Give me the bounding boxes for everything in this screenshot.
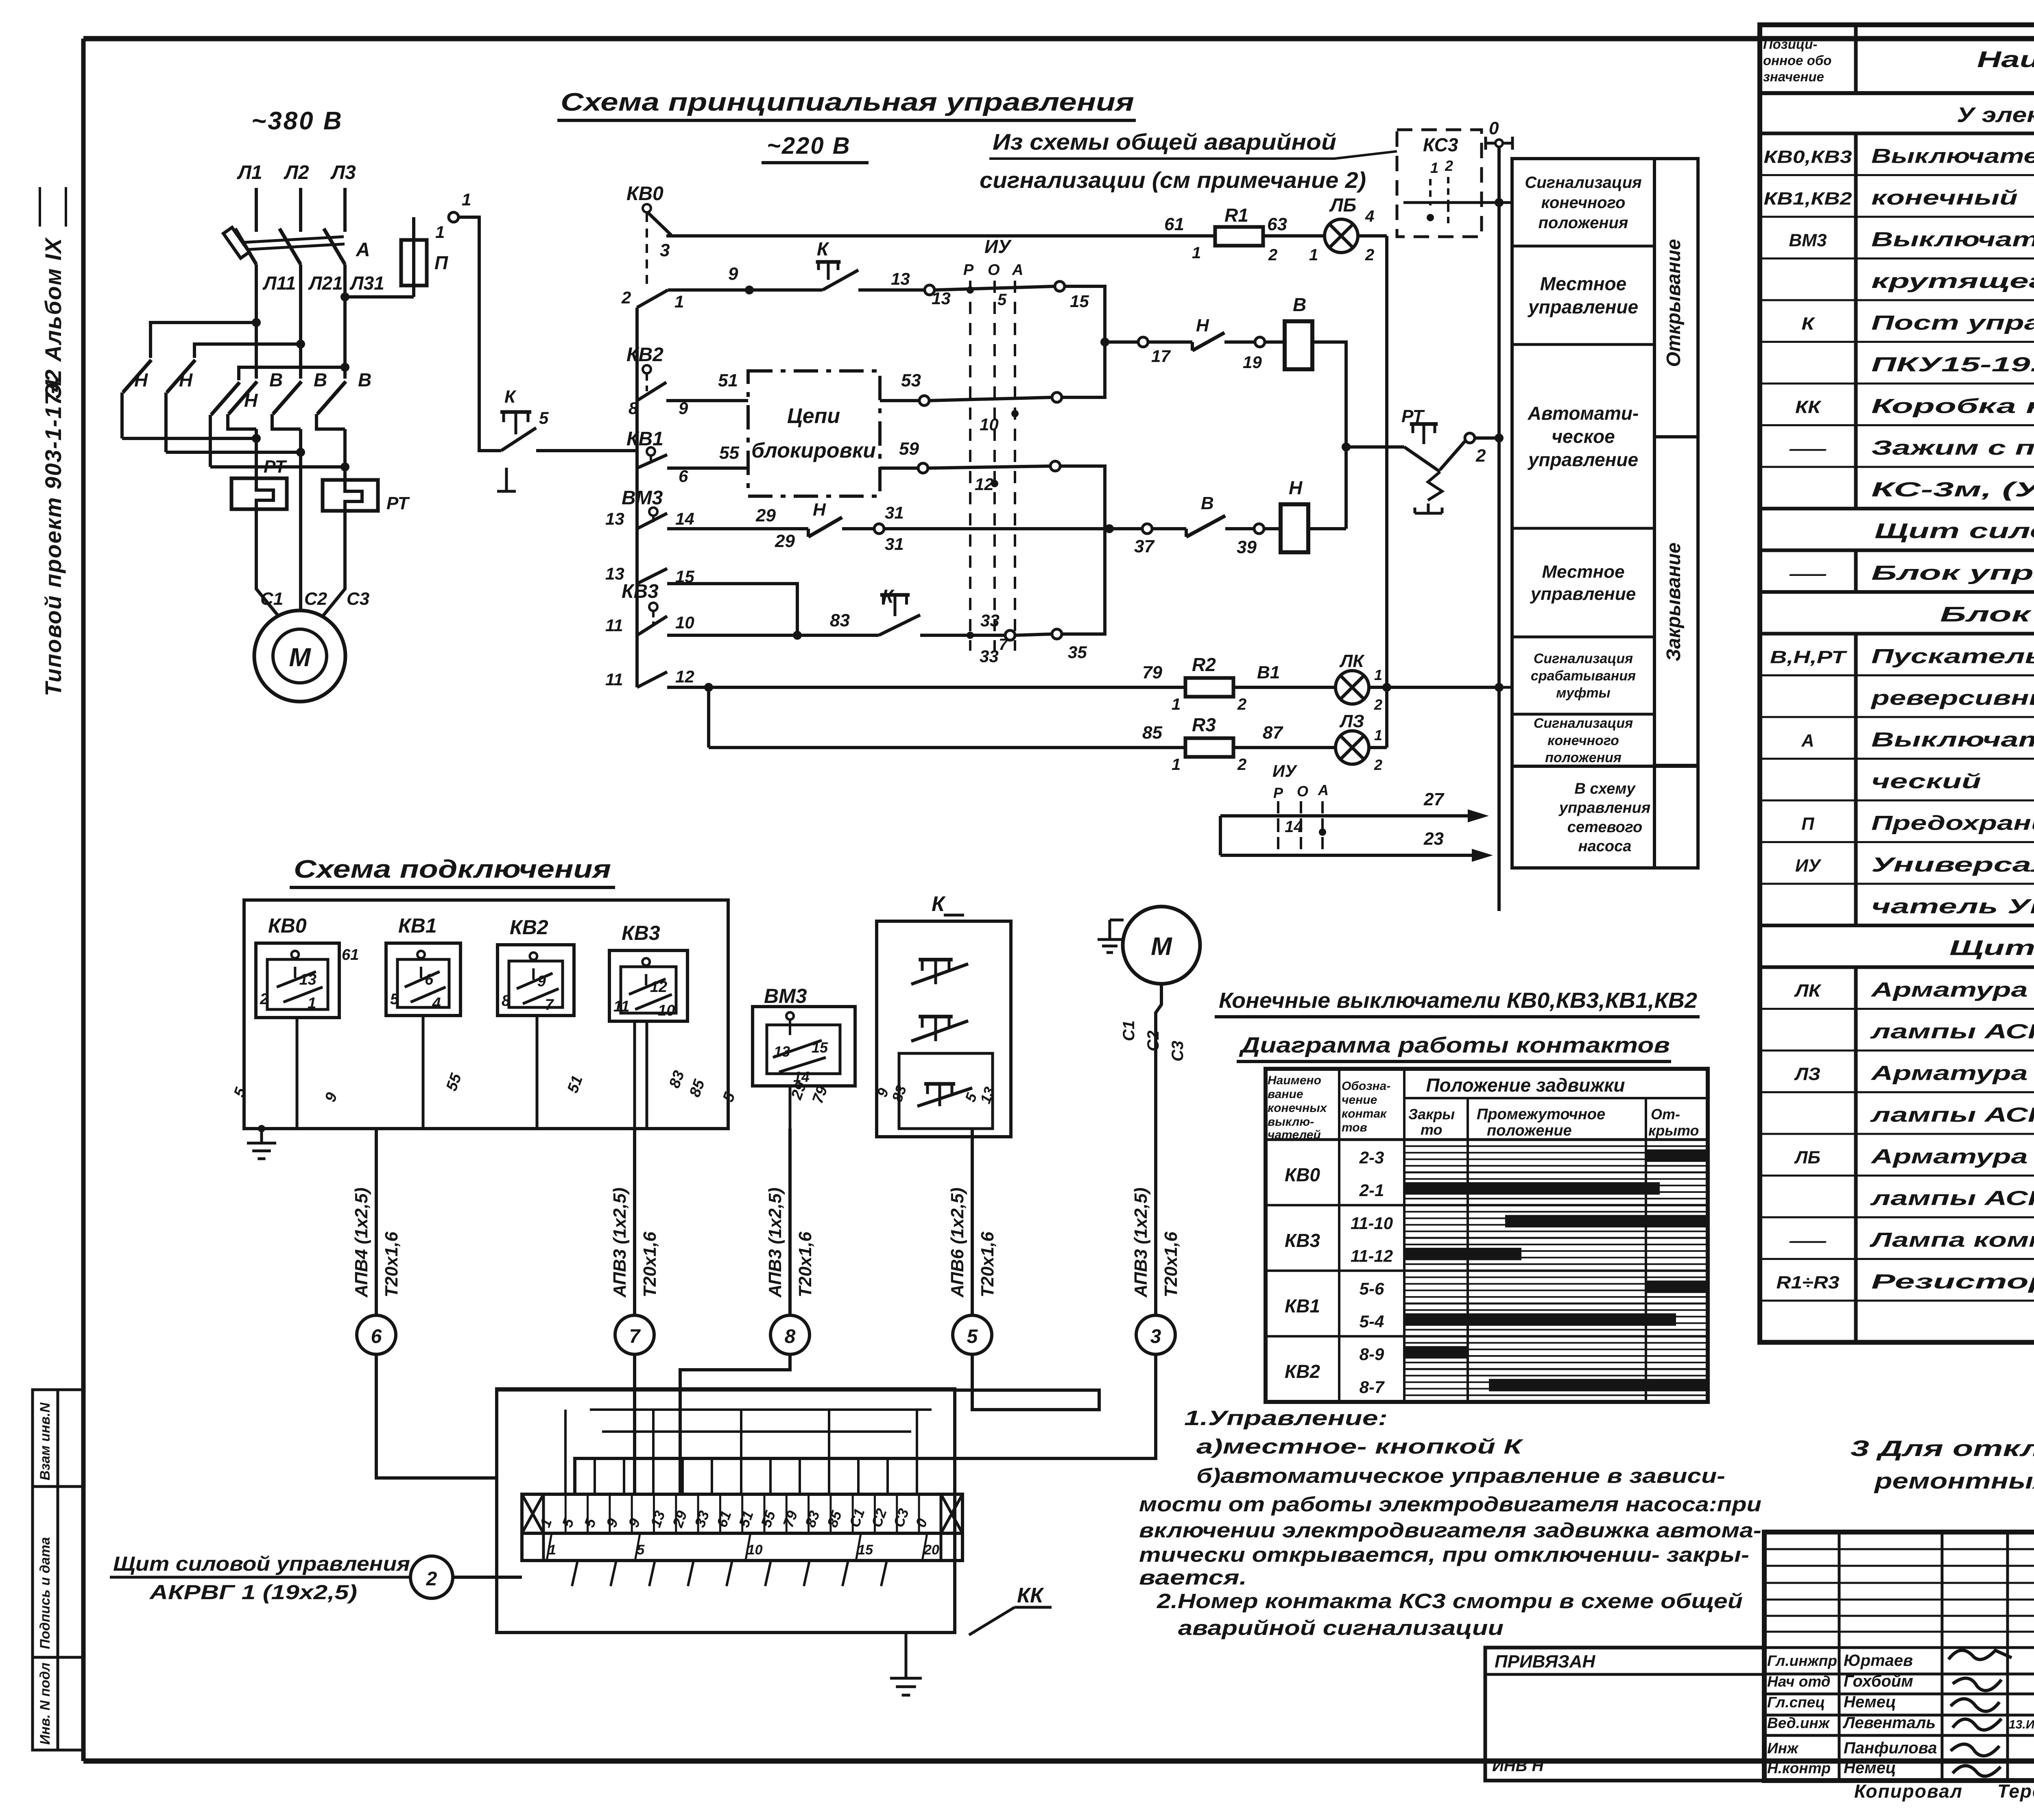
svg-text:R2: R2	[1192, 654, 1216, 675]
svg-text:31: 31	[885, 534, 904, 554]
svg-text:Копировал: Копировал	[1854, 1781, 1963, 1802]
limit switch box КВ3	[609, 922, 687, 1021]
svg-text:13: 13	[605, 509, 624, 528]
svg-text:Н: Н	[179, 369, 193, 390]
svg-text:13: 13	[605, 564, 624, 583]
KK label	[969, 1584, 1052, 1635]
terminal box KK enclosure	[497, 1389, 955, 1633]
svg-text:Блок управления: Блок управления	[1871, 562, 2034, 584]
title: schema principialnaya upravleniya	[557, 88, 1136, 120]
svg-text:3: 3	[1150, 1326, 1161, 1347]
svg-text:27: 27	[1423, 789, 1445, 809]
cable АПВ3 (1х2,5) Т20х1,6 circuit 8	[765, 1129, 815, 1354]
svg-text:5: 5	[967, 1326, 978, 1347]
contactor H return wires	[122, 437, 256, 440]
title ~220 V	[762, 133, 869, 163]
contact VM3 13-15	[605, 564, 797, 635]
svg-text:35: 35	[1068, 643, 1087, 662]
svg-text:управление: управление	[1530, 584, 1636, 604]
svg-text:лампы АСКМ: лампы АСКМ	[1870, 1020, 2034, 1043]
selector IU lower group	[1272, 761, 1329, 849]
svg-text:14: 14	[675, 509, 694, 528]
wire node1 to control feed	[458, 217, 501, 451]
limit switch KV3 contact 11-12	[605, 667, 1185, 692]
svg-text:11: 11	[605, 670, 623, 689]
svg-text:Арматура коммутаторной: Арматура коммутаторной	[1870, 1145, 2034, 1168]
svg-text:2.Номер контакта КС3 смотри в: 2.Номер контакта КС3 смотри в схеме обще…	[1157, 1589, 1743, 1613]
wire	[727, 1561, 732, 1586]
svg-text:насоса: насоса	[1578, 838, 1632, 855]
svg-text:П: П	[434, 252, 448, 273]
KS3 contact output wire	[1403, 201, 1499, 204]
svg-text:1: 1	[1374, 727, 1382, 743]
svg-text:Выключатель автомати-: Выключатель автомати-	[1871, 728, 2034, 751]
wire	[681, 1458, 684, 1494]
svg-text:Местное: Местное	[1540, 273, 1626, 294]
svg-text:Л11: Л11	[262, 272, 296, 294]
title: konechnye vyklyuchateli	[1215, 988, 1700, 1017]
svg-text:КВ0: КВ0	[626, 183, 663, 205]
wire	[789, 1086, 792, 1129]
svg-text:2: 2	[1365, 246, 1374, 264]
svg-text:Типовой проект 903-1-174: Типовой проект 903-1-174	[40, 378, 66, 696]
bus rung 1 (lamp LB circuit)	[666, 234, 1215, 238]
svg-text:Наимено: Наимено	[1268, 1074, 1321, 1087]
svg-text:КВ3: КВ3	[622, 922, 660, 944]
push button K contact 13	[816, 238, 951, 308]
rung 2 : seal-in via K button	[668, 288, 823, 292]
svg-text:Л1: Л1	[237, 162, 262, 183]
svg-text:Инж: Инж	[1767, 1740, 1799, 1757]
lamp LB (milky)	[1325, 194, 1358, 253]
svg-text:мости от работы электродвигате: мости от работы электродвигателя насоса:…	[1139, 1493, 1761, 1516]
contactor H contacts	[122, 360, 258, 467]
svg-text:Н: Н	[134, 369, 148, 390]
outgoing line 27 to network pump schema	[1220, 789, 1489, 822]
svg-text:4: 4	[432, 995, 441, 1012]
svg-text:Щит управления: Щит управления	[1949, 936, 2034, 960]
svg-text:15: 15	[1070, 292, 1089, 311]
svg-text:R3: R3	[1192, 714, 1216, 735]
wire 59 branch	[880, 439, 1105, 529]
signal descriptor column	[1512, 159, 1698, 868]
svg-text:Положение задвижки: Положение задвижки	[1426, 1075, 1625, 1096]
svg-text:АПВ4 (1х2,5): АПВ4 (1х2,5)	[351, 1188, 371, 1298]
svg-text:В,Н,РТ: В,Н,РТ	[1770, 647, 1847, 667]
svg-text:К: К	[504, 387, 517, 407]
svg-text:ВМ3: ВМ3	[1789, 231, 1827, 251]
svg-text:10: 10	[980, 415, 999, 434]
wire	[857, 1458, 860, 1494]
svg-text:Открывание: Открывание	[1663, 239, 1685, 367]
lamp LZ (green)	[1336, 711, 1387, 773]
svg-text:2: 2	[426, 1568, 437, 1590]
svg-text:Т20х1,6: Т20х1,6	[978, 1231, 997, 1297]
svg-text:14: 14	[1285, 818, 1303, 836]
svg-text:1: 1	[1430, 159, 1438, 176]
limit switch KV3 contact 11-10	[605, 581, 879, 640]
contact 2 to neutral rail	[1440, 433, 1504, 470]
wire	[296, 1018, 299, 1129]
svg-text:крыто: крыто	[1648, 1122, 1699, 1139]
title block	[1764, 1532, 2034, 1781]
lamp return rail vertical	[1385, 236, 1388, 748]
svg-text:Арматура коммутаторной: Арматура коммутаторной	[1870, 1062, 2034, 1085]
wire	[769, 1458, 772, 1494]
svg-text:~380 В: ~380 В	[251, 107, 343, 135]
switch box VM3	[753, 985, 855, 1086]
svg-text:Гохбойм: Гохбойм	[1844, 1672, 1913, 1690]
wire	[916, 1410, 918, 1494]
svg-text:Л3: Л3	[330, 162, 356, 183]
svg-text:муфты: муфты	[1556, 685, 1610, 701]
svg-text:чатель УП5314-С554: чатель УП5314-С554	[1871, 895, 2034, 918]
svg-text:В схему: В схему	[1574, 780, 1636, 798]
cable 7 wire to strip	[633, 1354, 636, 1494]
ground of KK box	[890, 1633, 922, 1695]
svg-text:Цепи: Цепи	[787, 404, 840, 428]
svg-text:КВ1: КВ1	[1285, 1295, 1320, 1317]
power cable from control panel	[110, 1552, 522, 1604]
svg-text:5: 5	[997, 291, 1007, 309]
svg-text:Т20х1,6: Т20х1,6	[795, 1231, 815, 1297]
svg-text:1: 1	[462, 190, 471, 209]
svg-text:5-4: 5-4	[1360, 1312, 1384, 1331]
svg-text:АПВ3 (1х2,5): АПВ3 (1х2,5)	[765, 1188, 785, 1298]
svg-text:ПКУ15-19. 131-40У3: ПКУ15-19. 131-40У3	[1871, 353, 2034, 376]
thermal relay RT contact	[1401, 406, 1473, 513]
cable 8 wire to strip	[680, 1354, 790, 1494]
svg-text:Т20х1,6: Т20х1,6	[1161, 1231, 1181, 1297]
wire from alarm schema into KS3	[1334, 151, 1397, 159]
svg-text:ВМ3: ВМ3	[622, 487, 663, 509]
wire phase L2	[299, 188, 302, 232]
internal routing wires	[497, 1389, 955, 1392]
wire 53	[880, 342, 1105, 405]
svg-text:79: 79	[1142, 663, 1162, 682]
rung R3 lamp LZ	[709, 714, 1336, 774]
svg-text:Вед.инж: Вед.инж	[1767, 1715, 1830, 1731]
wire LK rung into column	[1499, 686, 1512, 689]
cable 3 wire to strip	[575, 1354, 1156, 1494]
svg-text:К: К	[1802, 314, 1816, 334]
svg-text:9: 9	[537, 973, 546, 990]
svg-text:Л31: Л31	[349, 272, 384, 294]
svg-text:83: 83	[830, 610, 850, 630]
terminal strip	[522, 1494, 962, 1561]
svg-text:6: 6	[371, 1326, 382, 1347]
wire	[652, 1410, 655, 1494]
svg-text:15: 15	[812, 1039, 828, 1056]
svg-text:61: 61	[1164, 214, 1184, 234]
svg-text:ЛБ: ЛБ	[1794, 1148, 1820, 1168]
svg-text:С1: С1	[1120, 1020, 1138, 1041]
svg-text:Терентьева: Терентьева	[1997, 1781, 2034, 1802]
svg-text:Закры: Закры	[1408, 1106, 1455, 1123]
svg-text:управления: управления	[1558, 800, 1650, 817]
node 1	[435, 190, 471, 242]
push button K (repair cutoff)	[497, 387, 637, 491]
svg-text:—: —	[1789, 564, 1827, 584]
svg-text:Из схемы общей аварийной: Из схемы общей аварийной	[993, 129, 1336, 155]
svg-text:Щит силовой управления: Щит силовой управления	[1875, 519, 2034, 543]
connection diagram enclosure (drive)	[244, 900, 728, 1129]
left margin stamp boxes	[33, 1390, 83, 1750]
svg-text:17: 17	[1151, 347, 1171, 366]
contact work table	[1266, 1069, 1708, 1402]
svg-text:ремонтных работ пользоваться: ремонтных работ пользоваться кнопкой К	[1873, 1468, 2034, 1493]
svg-text:12: 12	[650, 979, 667, 996]
svg-text:2: 2	[621, 288, 631, 307]
svg-text:П: П	[1802, 814, 1815, 834]
svg-text:31: 31	[885, 503, 904, 522]
cable АПВ3 (1х2,5) Т20х1,6 circuit 7	[610, 1129, 660, 1354]
svg-text:8: 8	[502, 992, 511, 1009]
wire	[422, 1016, 425, 1129]
KS3 dashed box	[1397, 130, 1482, 237]
svg-text:63: 63	[1267, 214, 1287, 234]
selector IU dashed lines P O A	[963, 236, 1023, 654]
svg-text:Н.контр: Н.контр	[1767, 1760, 1831, 1776]
svg-text:Гл.инжпр: Гл.инжпр	[1767, 1652, 1837, 1669]
svg-text:2: 2	[1374, 696, 1382, 713]
svg-text:А: А	[356, 239, 370, 261]
wire	[804, 1561, 810, 1586]
svg-text:R1: R1	[1224, 205, 1248, 226]
wire	[842, 1561, 848, 1586]
svg-text:ИУ: ИУ	[1795, 856, 1822, 876]
svg-text:Немец: Немец	[1844, 1693, 1896, 1711]
wire	[594, 1458, 596, 1494]
svg-text:13: 13	[774, 1043, 790, 1060]
svg-text:РТ: РТ	[264, 457, 287, 477]
svg-text:КВ0,КВ3: КВ0,КВ3	[1764, 147, 1852, 167]
wire	[623, 1458, 625, 1494]
thermal element RT phase1	[231, 457, 287, 509]
svg-text:Р: Р	[963, 262, 974, 279]
svg-text:ИУ: ИУ	[984, 236, 1012, 257]
svg-text:11: 11	[605, 616, 623, 635]
svg-text:реверсивный: реверсивный	[1870, 687, 2034, 709]
motor M (connection diagram)	[1098, 907, 1200, 1061]
branch 51-53 from KV2	[626, 307, 748, 472]
svg-text:Универсальный переклю-: Универсальный переклю-	[1871, 853, 2034, 876]
svg-text:1: 1	[308, 995, 316, 1012]
svg-text:Левенталь: Левенталь	[1842, 1714, 1936, 1732]
wire	[688, 1561, 694, 1586]
wire node to RT contact	[1346, 445, 1404, 449]
svg-text:Р: Р	[1273, 785, 1283, 801]
svg-text:РТ: РТ	[386, 493, 410, 513]
svg-text:8-9: 8-9	[1360, 1345, 1384, 1364]
svg-text:тов: тов	[1342, 1121, 1367, 1134]
terminal 0	[1486, 118, 1512, 150]
coil N (close contactor)	[1281, 477, 1308, 552]
branch to rung R3	[707, 687, 710, 748]
svg-text:КС-3м, (У11): КС-3м, (У11)	[1871, 478, 2034, 501]
svg-text:2: 2	[1445, 157, 1453, 174]
svg-text:Схема подключения: Схема подключения	[294, 855, 611, 883]
svg-text:Резистор ПЭ-25: Резистор ПЭ-25	[1871, 1270, 2034, 1293]
motor M power	[254, 610, 345, 702]
svg-text:2-3: 2-3	[1359, 1148, 1384, 1167]
svg-text:ческий: ческий	[1871, 770, 1981, 793]
svg-text:5: 5	[390, 991, 399, 1008]
svg-text:К: К	[817, 238, 829, 259]
svg-text:Сигнализация: Сигнализация	[1534, 716, 1633, 731]
svg-text:ЛК: ЛК	[1339, 651, 1365, 671]
svg-text:Л21: Л21	[308, 272, 343, 294]
svg-text:сигнализации (см примечание 2): сигнализации (см примечание 2)	[980, 167, 1366, 193]
svg-text:значение: значение	[1763, 69, 1824, 84]
wire	[765, 1561, 771, 1586]
lamp LK (red)	[1336, 651, 1504, 713]
svg-text:онное обо: онное обо	[1763, 53, 1831, 68]
svg-text:0: 0	[1489, 118, 1499, 138]
svg-text:КВ3: КВ3	[1285, 1230, 1320, 1251]
svg-text:С3: С3	[1169, 1041, 1187, 1061]
svg-text:Местное: Местное	[1542, 562, 1624, 582]
svg-text:тически открывается, при отклю: тически открывается, при отключении- зак…	[1139, 1543, 1749, 1566]
svg-text:срабатывания: срабатывания	[1531, 668, 1636, 684]
contactor V contacts	[228, 369, 371, 586]
svg-text:12: 12	[975, 475, 994, 494]
svg-text:23: 23	[1423, 829, 1444, 849]
svg-text:2: 2	[1475, 446, 1486, 466]
svg-text:11-10: 11-10	[1351, 1214, 1393, 1233]
svg-text:15: 15	[858, 1542, 873, 1558]
svg-text:лампы АСКМ: лампы АСКМ	[1870, 1187, 2034, 1210]
svg-text:положение: положение	[1487, 1122, 1572, 1139]
cable 5 wire to box	[955, 1354, 1099, 1410]
wire coil N return	[1308, 527, 1346, 530]
svg-text:вание: вание	[1268, 1088, 1303, 1101]
svg-text:33: 33	[980, 647, 999, 666]
circuit breaker A	[223, 227, 370, 264]
svg-text:конечных: конечных	[1268, 1101, 1327, 1115]
wire	[611, 1561, 616, 1586]
wire	[536, 1016, 539, 1129]
svg-text:Блок управления: Блок управления	[1940, 603, 2034, 626]
svg-text:КВ1: КВ1	[398, 914, 437, 937]
limit switch KV0 contact 2-3	[626, 183, 671, 285]
svg-text:В: В	[314, 369, 327, 390]
wire phase L1	[255, 188, 258, 232]
cable 6 wire to box	[376, 1354, 497, 1478]
svg-text:1: 1	[1172, 756, 1181, 774]
svg-text:М: М	[289, 643, 311, 672]
svg-text:~220 В: ~220 В	[767, 133, 851, 159]
svg-text:Нач отд: Нач отд	[1767, 1673, 1831, 1690]
wire	[572, 1561, 578, 1586]
svg-text:29: 29	[755, 506, 776, 525]
svg-text:ЛЗ: ЛЗ	[1794, 1064, 1820, 1084]
footer text	[1854, 1779, 2034, 1807]
svg-text:ческое: ческое	[1552, 426, 1615, 447]
svg-text:39: 39	[1237, 537, 1257, 557]
svg-text:8: 8	[785, 1326, 796, 1347]
svg-text:1: 1	[1172, 695, 1181, 713]
svg-text:Схема принципиальная управле: Схема принципиальная управления	[561, 88, 1134, 116]
coil V (open contactor)	[1285, 294, 1312, 369]
svg-text:управление: управление	[1528, 296, 1638, 318]
svg-text:М: М	[1151, 933, 1172, 961]
svg-text:4: 4	[1365, 207, 1374, 225]
svg-text:Диаграмма работы контактов: Диаграмма работы контактов	[1239, 1033, 1670, 1057]
svg-text:—: —	[1789, 439, 1827, 459]
svg-text:В1: В1	[1257, 663, 1280, 682]
svg-text:конечный: конечный	[1871, 186, 2018, 209]
svg-text:5-6: 5-6	[1360, 1279, 1384, 1298]
neutral rail 0	[1497, 146, 1501, 911]
svg-text:АПВ3 (1х2,5): АПВ3 (1х2,5)	[610, 1188, 630, 1298]
svg-text:Наименование: Наименование	[1977, 46, 2034, 72]
svg-text:61: 61	[342, 946, 359, 963]
svg-text:К: К	[932, 892, 946, 916]
svg-text:10: 10	[658, 1002, 675, 1019]
svg-text:3: 3	[660, 240, 670, 260]
parts list table	[1760, 25, 2034, 1343]
svg-text:2: 2	[1268, 246, 1277, 264]
svg-text:2: 2	[1237, 695, 1246, 713]
svg-text:КК: КК	[1017, 1584, 1044, 1607]
limit switch box КВ1	[386, 914, 460, 1016]
svg-text:1.Управление:: 1.Управление:	[1184, 1406, 1388, 1430]
note: from common alarm schema	[980, 129, 1366, 193]
rung R2 lamp LK	[1142, 654, 1336, 713]
contactor H wires (reverse loop)	[151, 323, 256, 358]
svg-text:Выключатель: Выключатель	[1871, 145, 2034, 168]
svg-text:С2: С2	[304, 589, 327, 609]
cable АПВ3 (1х2,5) Т20х1,6 circuit 3	[1131, 1025, 1181, 1354]
svg-text:КВ2: КВ2	[510, 916, 548, 939]
svg-text:85: 85	[1142, 723, 1162, 743]
svg-text:КВ2: КВ2	[626, 344, 663, 366]
svg-text:11: 11	[613, 998, 629, 1015]
svg-text:а)местное- кнопкой К: а)местное- кнопкой К	[1196, 1435, 1524, 1458]
svg-text:КВ2: КВ2	[1285, 1361, 1320, 1382]
svg-text:2: 2	[260, 991, 268, 1008]
svg-text:КВ1,КВ2: КВ1,КВ2	[1764, 189, 1853, 209]
svg-text:АПВ3 (1х2,5): АПВ3 (1х2,5)	[1131, 1188, 1151, 1298]
svg-text:Т20х1,6: Т20х1,6	[640, 1231, 660, 1297]
svg-text:К: К	[882, 586, 895, 607]
svg-text:ПРИВЯЗАН: ПРИВЯЗАН	[1495, 1652, 1595, 1672]
wire L31 to fuse	[345, 295, 414, 299]
fuse P	[401, 217, 448, 297]
svg-text:включении электродвигателя зад: включении электродвигателя задвижка авто…	[1139, 1519, 1761, 1542]
svg-text:Подпись и дата: Подпись и дата	[37, 1537, 53, 1649]
svg-text:2-1: 2-1	[1359, 1181, 1384, 1200]
cable АПВ4 (1х2,5) Т20х1,6 circuit 6	[351, 1129, 402, 1354]
svg-text:59: 59	[899, 439, 919, 459]
svg-text:1: 1	[435, 222, 445, 242]
svg-text:Пускатель магнитный: Пускатель магнитный	[1871, 645, 2034, 668]
svg-text:Немец: Немец	[1844, 1759, 1896, 1777]
wires below breaker	[255, 264, 258, 379]
interlock circuits box (tsepi blokirovki)	[748, 371, 880, 496]
svg-text:выклю-: выклю-	[1268, 1115, 1314, 1129]
svg-text:КС3: КС3	[1423, 134, 1458, 155]
contact VM3 13-14	[605, 472, 758, 687]
svg-text:Промежуточное: Промежуточное	[1477, 1106, 1605, 1123]
svg-text:55: 55	[719, 443, 739, 463]
wire	[740, 1410, 742, 1494]
limit switch box КВ2	[498, 916, 574, 1016]
svg-text:Конечные выключатели КВ0,КВ3,К: Конечные выключатели КВ0,КВ3,КВ1,КВ2	[1219, 988, 1697, 1013]
wire	[881, 1561, 887, 1586]
svg-text:О: О	[988, 262, 1000, 279]
